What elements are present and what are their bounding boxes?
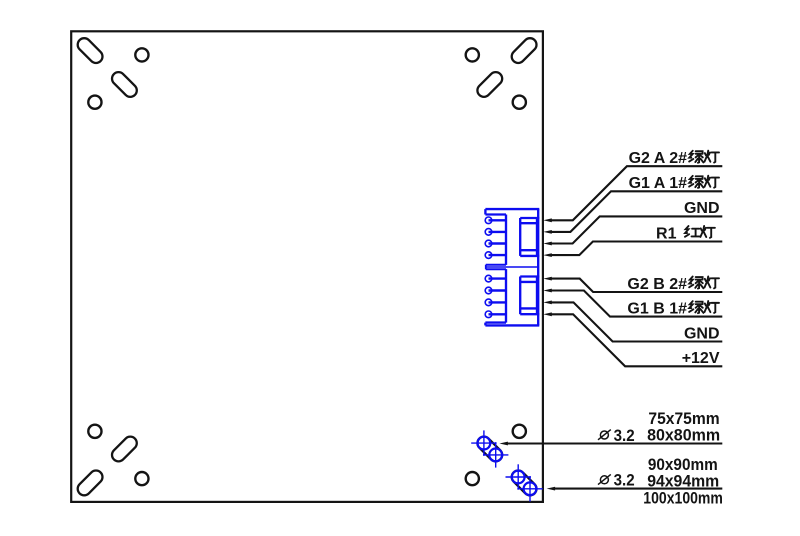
svg-text:G2 A 2#: G2 A 2# bbox=[629, 150, 688, 167]
svg-text:80x80mm: 80x80mm bbox=[647, 427, 720, 445]
svg-text:+12V: +12V bbox=[682, 350, 720, 367]
svg-text:90x90mm: 90x90mm bbox=[648, 456, 718, 474]
svg-text:3.2: 3.2 bbox=[614, 472, 635, 490]
svg-text:G2 B 2#: G2 B 2# bbox=[627, 276, 687, 293]
svg-text:G1 B 1#: G1 B 1# bbox=[627, 300, 687, 317]
svg-text:R1: R1 bbox=[656, 225, 677, 242]
svg-text:GND: GND bbox=[684, 200, 720, 217]
svg-text:94x94mm: 94x94mm bbox=[647, 472, 719, 490]
svg-text:100x100mm: 100x100mm bbox=[643, 489, 723, 507]
svg-text:3.2: 3.2 bbox=[614, 427, 635, 445]
svg-text:GND: GND bbox=[684, 325, 720, 342]
svg-text:75x75mm: 75x75mm bbox=[648, 410, 719, 428]
svg-text:G1 A 1#: G1 A 1# bbox=[629, 175, 688, 192]
